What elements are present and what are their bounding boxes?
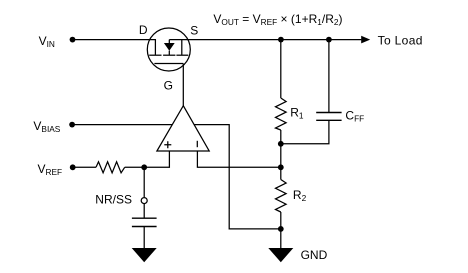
junction dot NR/SS node	[141, 164, 147, 170]
wire VIN to transistor drain	[73, 40, 156, 55]
wire junction to NR/SS pin	[143, 167, 145, 197]
op-amp U1 error amplifier	[157, 106, 209, 151]
svg-text:VBIAS: VBIAS	[33, 119, 60, 134]
wire R1 bottom to feedback node	[280, 144, 282, 168]
junction dot ground rail	[278, 226, 284, 232]
svg-text:NR/SS: NR/SS	[95, 193, 132, 207]
svg-text:R2: R2	[293, 188, 307, 203]
transistor Q1 source contact bar	[176, 54, 188, 56]
svg-text:G: G	[164, 78, 173, 92]
wire output rail to CFF	[328, 40, 330, 113]
pin circle NR/SS	[141, 198, 147, 204]
svg-text:D: D	[139, 23, 148, 37]
transistor Q1 body arrow	[164, 43, 175, 51]
ground symbol right	[268, 248, 293, 262]
wire op-amp right side to ground rail	[194, 125, 281, 229]
capacitor CNR top plate	[132, 217, 157, 219]
resistor R2	[276, 180, 287, 213]
junction dot output R1	[278, 37, 284, 43]
svg-text:To Load: To Load	[378, 34, 423, 48]
svg-text:S: S	[190, 23, 198, 37]
wire gate to op-amp output	[182, 64, 184, 106]
wire capacitor to ground	[143, 227, 145, 249]
svg-text:GND: GND	[301, 248, 328, 262]
capacitor CNR bottom plate	[132, 226, 157, 228]
wire R1 to CFF node	[280, 130, 282, 144]
wire inverting input to feedback node	[197, 151, 280, 167]
transistor Q1 source stub	[181, 40, 183, 56]
wire output rail to R1	[280, 40, 282, 98]
transistor Q1 gate plate	[154, 63, 183, 65]
junction dot feedback	[278, 164, 284, 170]
arrowhead to load	[361, 36, 370, 44]
terminal dot VBIAS	[69, 122, 75, 128]
svg-text:VOUT = VREF × (1+R1/R2): VOUT = VREF × (1+R1/R2)	[213, 12, 342, 27]
svg-text:VIN: VIN	[39, 34, 55, 49]
wire noninverting input lead	[144, 151, 169, 167]
wire NR/SS pin to capacitor	[143, 204, 145, 218]
wire VBIAS to op-amp	[72, 124, 172, 126]
wire VREF to resistor	[73, 166, 96, 168]
svg-text:VREF: VREF	[38, 162, 63, 177]
svg-text:CFF: CFF	[345, 109, 364, 124]
terminal dot VIN	[70, 37, 76, 43]
svg-text:R1: R1	[290, 105, 304, 120]
wire feedback node to R2	[280, 167, 282, 179]
ground symbol left	[132, 248, 157, 262]
wire R2 to ground rail	[280, 212, 282, 229]
transistor Q1 body stub and arrow stem	[168, 40, 170, 56]
wire ground rail to ground symbol	[280, 229, 282, 249]
capacitor CFF bottom plate	[316, 119, 341, 121]
transistor Q1 body circle	[147, 28, 190, 71]
wire CFF to R1 bottom	[281, 120, 329, 144]
capacitor CFF top plate	[316, 112, 341, 114]
transistor Q1 drain contact bar	[149, 54, 161, 56]
junction dot output CFF	[326, 37, 332, 43]
op-amp plus symbol	[164, 141, 171, 148]
junction dot R1 CFF	[278, 141, 284, 147]
wire resistor to NR/SS junction	[125, 166, 145, 168]
resistor VREF series	[96, 162, 125, 173]
terminal dot VREF	[70, 164, 76, 170]
resistor R1	[276, 98, 287, 130]
wire source rail to load arrow	[169, 39, 361, 41]
transistor Q1 body contact bar	[163, 54, 175, 56]
op-amp minus symbol	[196, 141, 198, 147]
